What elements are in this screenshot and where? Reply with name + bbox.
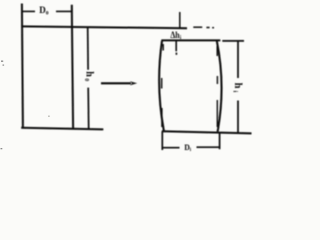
barrel top line: [161, 39, 220, 41]
arrow (deformation direction) shaft: [101, 82, 131, 84]
dimension line h1 upper segment: [237, 41, 239, 78]
dimension line h0 upper segment: [87, 28, 89, 70]
dashed chord left: [162, 44, 164, 51]
barrel left bulged side: [159, 41, 164, 132]
D1 extension tick right: [219, 133, 221, 150]
arrow head: [130, 81, 137, 85]
delta-h tick mark: [179, 12, 181, 28]
barrel bottom line: [162, 131, 252, 133]
svg-text:h0: h0: [83, 71, 95, 81]
svg-text:Di: Di: [184, 143, 191, 154]
h1 top cap line: [222, 40, 244, 42]
upsetting diagram: cylinder before/after compression: [0, 0, 259, 161]
dimension D0 extension line right: [71, 5, 73, 27]
dimension line h1 lower segment: [237, 101, 239, 133]
rectangle top edge / upper platen line: [21, 26, 187, 28]
delta-h drop guideline: [175, 41, 177, 51]
barrel right bulged side: [217, 41, 222, 132]
dashed original height line: [193, 26, 202, 28]
dimension line h0 lower segment: [87, 88, 90, 130]
D1 extension tick left: [161, 131, 163, 150]
svg-text:hi: hi: [231, 83, 243, 93]
dimension line D1: [162, 147, 179, 149]
dimension line D0: [22, 10, 35, 12]
dimension D0 extension line left: [22, 4, 23, 128]
scan specks: [1, 61, 50, 150]
die rectangle (initial cylinder) right edge: [72, 27, 73, 129]
svg-text:Δhi: Δhi: [170, 29, 181, 41]
dashed chord right: [216, 46, 218, 56]
svg-text:D0: D0: [39, 5, 49, 17]
rectangle bottom edge: [21, 128, 103, 130]
